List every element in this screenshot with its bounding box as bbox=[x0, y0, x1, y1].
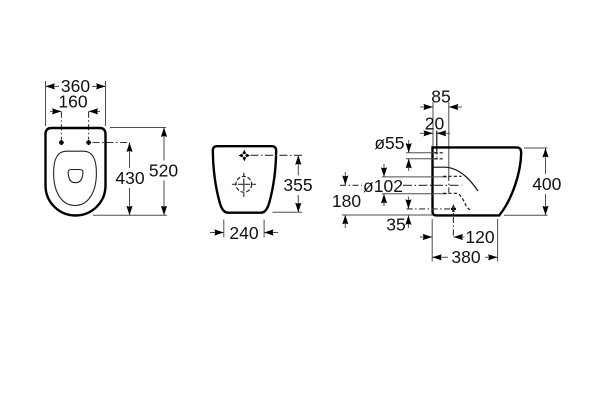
wire: 355 dimension line with arrows bbox=[297, 155, 299, 175]
wire: 20 dimension left arrow bbox=[420, 132, 433, 134]
wire: 240 right extension line bbox=[263, 220, 265, 238]
pan outline (front view) bbox=[213, 146, 276, 213]
wire: 360 dimension line right with arrow bbox=[92, 85, 106, 87]
wire: 35 top arrow bbox=[407, 197, 409, 209]
svg-text:35: 35 bbox=[386, 215, 405, 235]
wire: floor extension line left bbox=[342, 214, 433, 216]
wire: outlet center vertical dash-dot bbox=[452, 205, 454, 238]
bowl interior curve bbox=[433, 167, 479, 191]
svg-text:520: 520 bbox=[149, 160, 178, 180]
fixing hole marker right bbox=[86, 140, 91, 145]
wire: 120 dimension left arrow bbox=[420, 236, 432, 238]
wire: 35 dash-dot line bbox=[407, 208, 450, 210]
fixing hole marker left bbox=[59, 140, 64, 145]
outlet hidden bottom curve bbox=[443, 193, 472, 210]
wire: 85 right extension line bbox=[448, 102, 450, 176]
wire: 380 left extension line bbox=[431, 219, 433, 262]
wire: ø55 bottom extension line bbox=[406, 158, 438, 160]
wire: outlet crosshair horizontal bbox=[232, 183, 256, 185]
wire: 520 top extension line bbox=[110, 127, 166, 129]
svg-text:20: 20 bbox=[425, 113, 445, 133]
wire: ø55 top arrow bbox=[408, 140, 410, 153]
pan outline (side view) bbox=[433, 147, 522, 215]
wire: 180 bottom arrow bbox=[344, 215, 346, 228]
inlet hole hidden bottom line bbox=[434, 158, 444, 160]
wire: 240 left extension line bbox=[223, 220, 225, 238]
svg-text:ø102: ø102 bbox=[363, 176, 403, 196]
svg-text:355: 355 bbox=[283, 175, 312, 195]
wire: 85 dimension left arrow bbox=[420, 106, 433, 108]
svg-text:240: 240 bbox=[229, 223, 258, 243]
outlet circle (front) bbox=[236, 176, 252, 192]
wire: 85 dimension right arrow bbox=[449, 106, 462, 108]
pan outline (plan view) bbox=[46, 128, 106, 216]
floor outlet marker (side) bbox=[451, 206, 456, 212]
inlet hole hidden top line bbox=[434, 152, 444, 154]
svg-text:400: 400 bbox=[532, 174, 561, 194]
wire: 400 dimension line with arrows bbox=[545, 148, 547, 174]
svg-text:85: 85 bbox=[431, 87, 450, 107]
wire: ø102 center dash-dot line left of text bbox=[340, 184, 362, 186]
svg-text:160: 160 bbox=[58, 91, 87, 111]
seat opening oval bbox=[54, 151, 97, 205]
wire: bottom extension line (430/520) bbox=[93, 214, 167, 216]
wire: 35 bottom arrow bbox=[407, 215, 409, 228]
wire: 380 dimension line with arrows bbox=[432, 256, 448, 258]
wire: inlet pipe line (20 ref) solid part bbox=[436, 131, 438, 152]
wire: ø55 top extension line bbox=[406, 152, 438, 154]
wire: 400 top extension line bbox=[524, 147, 548, 149]
svg-text:ø55: ø55 bbox=[374, 133, 404, 153]
outlet hidden top line bbox=[443, 175, 462, 177]
wire: inlet center vertical dash-dot continuation bbox=[448, 176, 450, 194]
wire: ø102 bottom extension line bbox=[382, 193, 447, 195]
wire: ø102 center dash-dot line right of text bbox=[403, 184, 462, 186]
wire: 240 dimension left arrow bbox=[210, 232, 224, 234]
svg-text:430: 430 bbox=[115, 168, 144, 188]
wire: 360 dimension line left with arrow bbox=[46, 85, 60, 87]
wire: 380 right extension line bbox=[497, 219, 499, 262]
wire: ø55 bottom arrow bbox=[408, 159, 410, 171]
wire: 430 dimension line with arrows bbox=[129, 143, 131, 169]
wire: 85 left extension line bbox=[432, 102, 434, 147]
wire: 120 dimension right arrow bbox=[454, 236, 465, 238]
wire: inlet centerline to the right bbox=[251, 154, 303, 156]
wire: ø102 top extension line bbox=[382, 176, 447, 178]
wire: ø102 top arrow bbox=[383, 164, 385, 177]
wire: 240 dimension right arrow bbox=[264, 232, 278, 234]
wire: fixing hole centerline left vertical bbox=[60, 112, 62, 140]
wire: 160 dimension right arrow bbox=[89, 110, 100, 112]
wire: 360 left extension line bbox=[45, 81, 47, 126]
wire: 160 dimension left arrow bbox=[50, 110, 61, 112]
wire: 20 dimension right arrow bbox=[437, 132, 450, 134]
wire: 180 top arrow bbox=[344, 172, 346, 185]
svg-text:380: 380 bbox=[451, 247, 480, 267]
wire: fixing hole centerline right vertical bbox=[88, 112, 90, 140]
wire: ø102 bottom arrow bbox=[383, 194, 385, 206]
wire: 355 bottom extension line bbox=[273, 211, 303, 213]
water surface shape bbox=[68, 170, 83, 183]
wire: fixing holes horizontal centerline bbox=[93, 142, 128, 144]
wire: 360 right extension line bbox=[105, 81, 107, 126]
inlet star marker (front) bbox=[239, 150, 250, 161]
svg-text:120: 120 bbox=[465, 227, 494, 247]
wire: 400 bottom extension line bbox=[504, 214, 548, 216]
wire: 520 dimension line with arrows bbox=[163, 128, 165, 161]
wire: inlet pipe hidden line bbox=[436, 151, 438, 157]
svg-text:180: 180 bbox=[332, 191, 361, 211]
wire: outlet crosshair vertical bbox=[243, 173, 245, 197]
